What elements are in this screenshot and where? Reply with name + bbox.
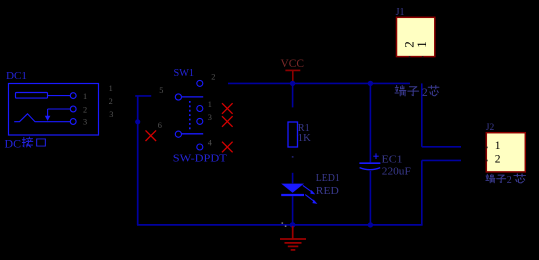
SW1 pin 3 contact (197, 118, 203, 124)
svg-text:J1: J1 (396, 7, 405, 18)
svg-text:1: 1 (109, 84, 113, 93)
hidden pin speck (292, 156, 294, 158)
svg-text:220uF: 220uF (382, 165, 411, 177)
SW1 pin 4 contact (197, 144, 203, 150)
pin 1 of DC1 (70, 93, 76, 99)
SW1 blade upper (182, 96, 203, 98)
svg-text:LED1: LED1 (316, 173, 340, 184)
capacitor EC1 (359, 153, 380, 169)
svg-text:1: 1 (495, 140, 501, 152)
svg-text:2: 2 (495, 153, 501, 165)
svg-text:VCC: VCC (281, 56, 305, 70)
SW1 blade lower (182, 133, 203, 135)
svg-text:4: 4 (208, 138, 213, 147)
junction EC1 ground (368, 222, 373, 227)
comment DC接口 (5, 137, 46, 150)
svg-text:3: 3 (109, 110, 113, 119)
junction VCC/R1 (290, 81, 295, 86)
SW1 mechanical link dashed (189, 101, 191, 131)
wire EC1 bottom (369, 171, 371, 224)
svg-text:2: 2 (83, 105, 87, 114)
svg-text:2: 2 (507, 175, 512, 186)
wire to J2 pin2 (422, 159, 461, 161)
svg-text:1: 1 (414, 41, 429, 48)
pin 3 of DC1 (70, 119, 76, 125)
junction EC1 top (368, 81, 373, 86)
wire from DC1 pin1 to SW1 (135, 95, 151, 97)
wire EC1 top (369, 83, 371, 162)
wire LED1 to ground rail (292, 196, 294, 225)
svg-text:SW-DPDT: SW-DPDT (173, 153, 227, 165)
connector J2 (486, 123, 526, 172)
SW1 pin 2 contact (197, 80, 203, 86)
no-ERC X pin4 (222, 142, 233, 153)
svg-text:EC1: EC1 (382, 153, 403, 165)
svg-text:2: 2 (422, 85, 428, 99)
SW1 pole pin 5 (175, 94, 181, 100)
svg-text:SW1: SW1 (174, 67, 195, 79)
wire VCC rail (228, 82, 410, 84)
wire bottom ground rail (137, 224, 423, 226)
no-ERC X pin6 (146, 130, 157, 141)
no-ERC X pin3 (222, 116, 233, 127)
svg-text:DC: DC (5, 138, 22, 150)
svg-text:1: 1 (208, 100, 212, 109)
wire vertical left (137, 96, 139, 225)
junction DC1 pin3 (135, 119, 140, 124)
connector DC1 (9, 84, 99, 136)
label 端子2芯 under J2 (486, 174, 526, 186)
wire to R1 (292, 83, 294, 107)
SW1 pin 1 contact (197, 106, 203, 112)
svg-text:5: 5 (159, 86, 163, 95)
svg-text:2: 2 (211, 72, 215, 81)
J1 pin ticks (409, 56, 424, 58)
connector J1 (396, 7, 435, 57)
faint specks (282, 222, 287, 227)
SW1 pin numbers (158, 72, 216, 147)
resistor R1 (288, 122, 298, 147)
wire to J2 pin1 (422, 146, 461, 148)
power VCC (281, 56, 305, 83)
svg-text:1K: 1K (298, 132, 311, 144)
pin numbers inside DC1 (83, 92, 87, 127)
svg-text:2: 2 (109, 97, 113, 106)
svg-text:1: 1 (83, 92, 87, 101)
no-ERC X pin1 (222, 103, 233, 114)
svg-text:3: 3 (208, 113, 212, 122)
junction LED ground (290, 222, 296, 228)
J2 pin ticks (486, 147, 488, 162)
SW1 pole pin 6 (175, 131, 181, 137)
svg-text:DC1: DC1 (6, 70, 27, 82)
svg-text:3: 3 (83, 118, 87, 127)
svg-text:J2: J2 (486, 123, 495, 133)
ground symbol (280, 226, 306, 250)
svg-text:6: 6 (158, 121, 162, 130)
svg-text:RED: RED (316, 186, 340, 197)
pin numbers right of DC1 (109, 84, 114, 119)
label 端子2芯 under J1 (395, 85, 439, 99)
LED LED1 (281, 184, 317, 204)
pin 2 of DC1 (70, 106, 76, 112)
wire J2 pin2 to ground rail (421, 160, 423, 225)
wire J1 pin1 down (421, 83, 423, 146)
wire R1 to LED1 (292, 173, 294, 184)
